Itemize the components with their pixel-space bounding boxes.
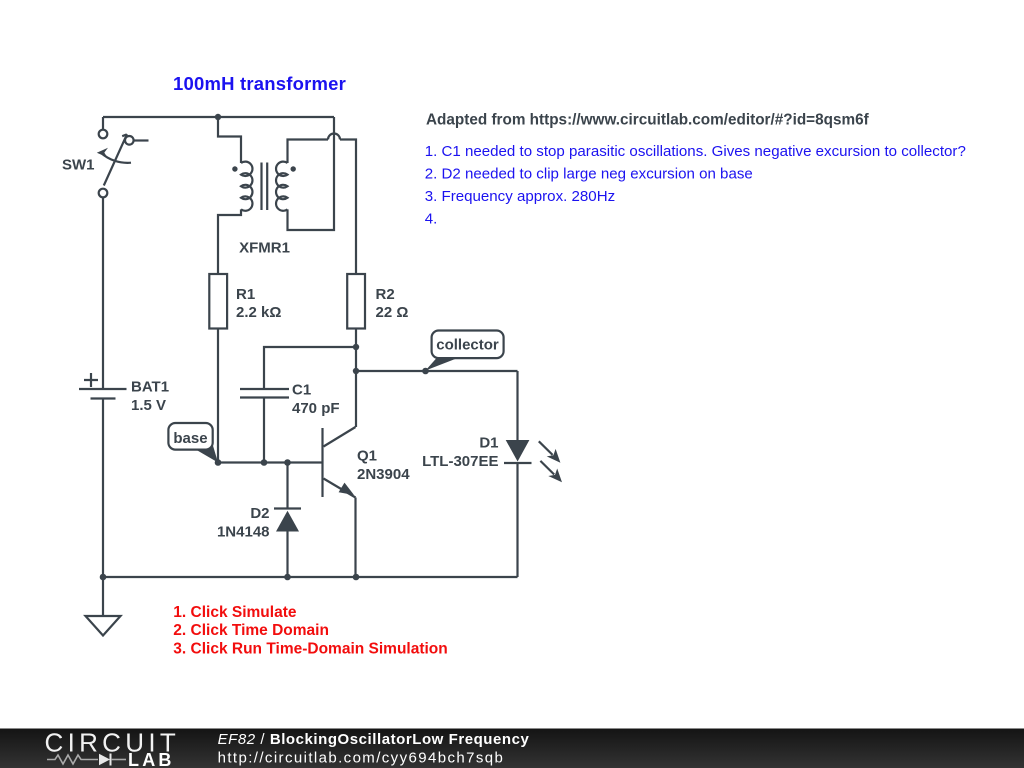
- wire LED bottom: [516, 463, 518, 577]
- svg-text:1. Click Simulate: 1. Click Simulate: [173, 604, 297, 621]
- svg-text:2N3904: 2N3904: [357, 466, 410, 483]
- wire primary top (junction to XFMR1): [218, 117, 241, 163]
- svg-text:2.2 kΩ: 2.2 kΩ: [236, 304, 281, 321]
- node label base callout: [168, 423, 218, 463]
- resistor R1: [209, 274, 227, 329]
- svg-text:1. C1 needed to stop parasitic: 1. C1 needed to stop parasitic oscillati…: [425, 143, 966, 160]
- node junction dot rail left: [100, 574, 107, 581]
- wire secondary bottom up to top rail: [288, 117, 335, 230]
- wire hop to R2 top: [340, 140, 356, 275]
- svg-text:EF82 / BlockingOscillatorLow F: EF82 / BlockingOscillatorLow Frequency: [218, 731, 530, 748]
- wire emitter to bottom rail: [354, 498, 356, 578]
- wire C1 branch: [264, 347, 356, 389]
- wire D2 top: [286, 463, 288, 509]
- svg-text:BAT1: BAT1: [131, 379, 169, 396]
- wire SW1 top stub: [102, 117, 104, 130]
- svg-text:2. D2 needed to clip large neg: 2. D2 needed to clip large neg excursion…: [425, 165, 753, 182]
- node label collector callout: [426, 331, 504, 371]
- wire bottom rail: [103, 576, 518, 578]
- wire SW1 to battery: [102, 197, 104, 389]
- svg-text:D2: D2: [250, 505, 269, 522]
- svg-text:LAB: LAB: [128, 750, 175, 768]
- node junction dot collector: [353, 368, 359, 374]
- svg-text:D1: D1: [479, 435, 498, 452]
- svg-text:XFMR1: XFMR1: [239, 240, 290, 257]
- svg-text:470 pF: 470 pF: [292, 400, 340, 417]
- svg-text:C1: C1: [292, 382, 311, 399]
- diode D2: [274, 509, 301, 578]
- svg-text:R1: R1: [236, 286, 255, 303]
- svg-text:1.5 V: 1.5 V: [131, 397, 166, 414]
- svg-text:http://circuitlab.com/cyy694bc: http://circuitlab.com/cyy694bch7sqb: [218, 749, 505, 766]
- wire hop over vertical: [328, 134, 340, 140]
- transformer XFMR1: [232, 162, 296, 211]
- wire R1 bottom to base line: [217, 329, 219, 463]
- svg-text:Q1: Q1: [357, 448, 377, 465]
- battery BAT1: [79, 373, 127, 399]
- svg-text:1N4148: 1N4148: [217, 523, 270, 540]
- node junction dot collector callout: [422, 368, 429, 375]
- svg-text:LTL-307EE: LTL-307EE: [422, 453, 498, 470]
- wire battery to bottom rail: [102, 399, 104, 578]
- node junction dot R2/C1: [353, 344, 359, 350]
- svg-text:4.: 4.: [425, 210, 438, 227]
- transistor Q1: [323, 427, 356, 498]
- node junction dot base: [215, 459, 222, 466]
- svg-text:R2: R2: [376, 286, 395, 303]
- logo squiggle resistor diode: [47, 754, 126, 766]
- node junction dot rail D2: [284, 574, 291, 581]
- svg-text:3. Frequency approx. 280Hz: 3. Frequency approx. 280Hz: [425, 188, 615, 205]
- node junction dot rail Q1: [353, 574, 360, 581]
- svg-text:22 Ω: 22 Ω: [376, 304, 409, 321]
- node junction dot C1-base: [261, 459, 268, 466]
- wire C1 bottom to base line: [263, 398, 265, 463]
- LED D1: [504, 440, 562, 482]
- svg-text:collector: collector: [436, 337, 499, 354]
- svg-text:3. Click Run Time-Domain Simul: 3. Click Run Time-Domain Simulation: [173, 640, 447, 657]
- svg-text:2. Click Time Domain: 2. Click Time Domain: [173, 622, 329, 639]
- wire collector to LED: [356, 370, 518, 372]
- node junction dot D2-base: [284, 459, 291, 466]
- ground: [86, 577, 121, 636]
- switch SW1: [97, 130, 149, 198]
- wire LED top: [516, 371, 518, 440]
- svg-text:SW1: SW1: [62, 157, 95, 174]
- svg-text:base: base: [173, 430, 207, 447]
- svg-text:100mH transformer: 100mH transformer: [173, 73, 346, 94]
- wire primary bottom (XFMR1 to R1): [218, 209, 241, 274]
- capacitor C1: [240, 389, 289, 398]
- wire top rail: [103, 116, 334, 118]
- wire base line: [218, 461, 323, 463]
- resistor R2: [347, 274, 365, 329]
- node junction dot top rail: [215, 114, 221, 120]
- wire R2 bottom down collector node: [355, 329, 357, 428]
- wire secondary top to R2 with hop: [288, 140, 329, 164]
- svg-text:Adapted from https://www.circu: Adapted from https://www.circuitlab.com/…: [426, 111, 870, 128]
